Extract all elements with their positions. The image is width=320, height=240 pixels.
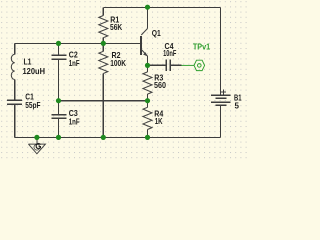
svg-text:55pF: 55pF	[25, 100, 41, 110]
svg-text:C2: C2	[69, 50, 78, 60]
svg-text:1nF: 1nF	[69, 59, 80, 68]
svg-text:56K: 56K	[110, 22, 123, 32]
svg-text:1K: 1K	[155, 117, 164, 126]
svg-text:10nF: 10nF	[163, 50, 176, 58]
svg-text:C3: C3	[69, 109, 78, 119]
svg-text:L1: L1	[24, 57, 32, 67]
svg-text:1nF: 1nF	[69, 118, 80, 127]
svg-text:Q1: Q1	[152, 29, 161, 39]
svg-text:560: 560	[154, 81, 166, 90]
svg-text:100K: 100K	[110, 58, 126, 68]
svg-text:5: 5	[235, 102, 240, 111]
svg-text:G: G	[35, 142, 41, 151]
svg-text:120uH: 120uH	[23, 67, 46, 76]
svg-text:TPv1: TPv1	[193, 42, 211, 51]
